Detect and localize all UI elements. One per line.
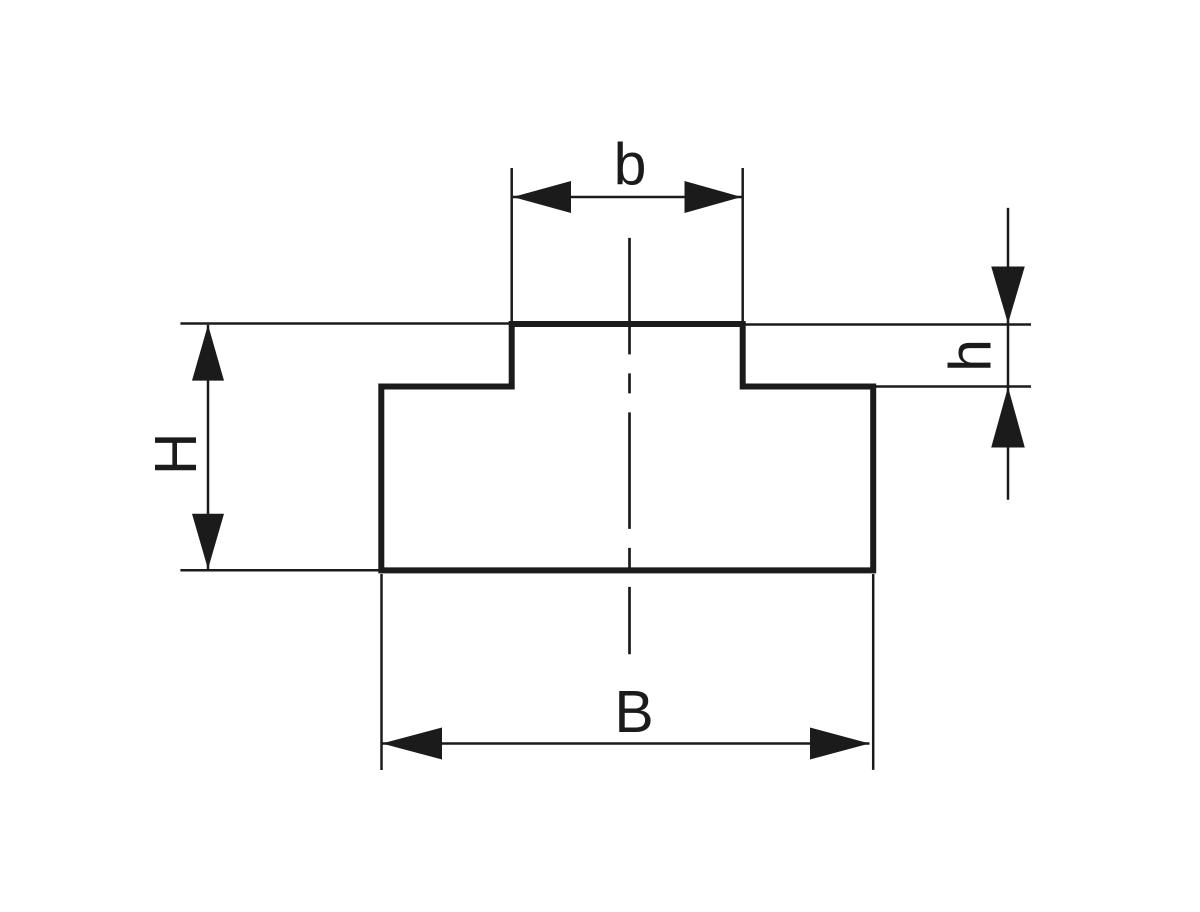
dimension b: dimension line (513, 196, 742, 199)
dimension B: left arrowhead (382, 728, 442, 760)
T-profile outline (381, 324, 873, 570)
dimension B: right extension line (872, 574, 875, 770)
dimension h: upper arrowhead (points down) (991, 267, 1025, 324)
dimension H: dimension line (207, 325, 210, 569)
svg-text:H: H (143, 432, 209, 475)
svg-text:B: B (614, 679, 653, 745)
dimension h: dimension line (1007, 208, 1010, 500)
dimension b: left arrowhead (513, 181, 571, 213)
dimension b: left extension line (510, 168, 513, 323)
dimension b: right arrowhead (685, 181, 742, 213)
dimension H: lower arrowhead (192, 514, 224, 569)
dimension H: top extension line (180, 322, 511, 325)
dimension H: bottom extension line (180, 569, 380, 572)
svg-text:h: h (938, 339, 1004, 372)
svg-text:b: b (614, 132, 647, 198)
centerline (dash-dot) (628, 238, 631, 654)
dimension h: top extension line (745, 323, 1031, 326)
dimension b: right extension line (741, 168, 744, 323)
dimension H: upper arrowhead (192, 325, 224, 381)
dimension B: dimension line (382, 742, 870, 745)
dimension B: right arrowhead (810, 728, 870, 760)
dimension B: left extension line (380, 574, 383, 770)
dimension h: bottom extension line (876, 385, 1031, 388)
dimension h: lower arrowhead (points up) (991, 387, 1025, 448)
